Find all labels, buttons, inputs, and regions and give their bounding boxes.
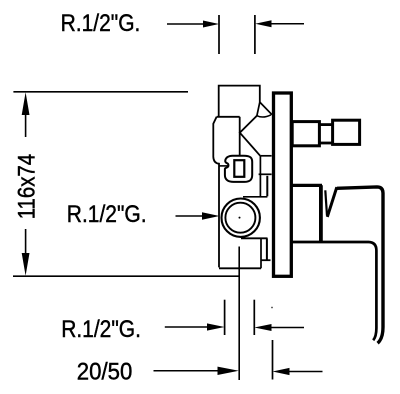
svg-text:R.1/2"G.: R.1/2"G.	[61, 10, 141, 37]
handle hub right bar	[319, 185, 323, 242]
middle leader arrow to inlet circle	[176, 215, 204, 217]
circle bottom tangent line	[241, 237, 268, 239]
bottom dim1 extension line right	[253, 300, 255, 335]
lever inner edge bottom and right with tip curl	[291, 242, 377, 340]
outlet nipple neck bottom	[319, 142, 332, 145]
body bottom edge	[219, 267, 261, 269]
left dimension top reference line	[13, 91, 188, 93]
top dimension arrow right	[271, 23, 305, 25]
bottom dim1 arrow right	[271, 327, 305, 329]
svg-text:20/50: 20/50	[77, 358, 133, 385]
body upper-left horizontal edge	[217, 116, 240, 118]
outlet nipple block 2	[333, 120, 360, 144]
left dimension vertical line upper with up arrow	[25, 105, 27, 137]
cartridge cone diagonals	[240, 116, 260, 156]
inlet circle center dot	[239, 217, 241, 219]
body inner vertical edge	[239, 117, 241, 156]
handle neck inner diagonal	[325, 190, 327, 215]
top dimension extension line left	[218, 15, 220, 54]
bottom dim2 arrow left	[154, 370, 222, 372]
top dimension extension line right	[254, 15, 256, 54]
handle hub top edge	[291, 184, 322, 187]
cartridge step rect top edge	[260, 155, 271, 157]
svg-text:R.1/2"G.: R.1/2"G.	[67, 201, 147, 228]
cartridge step right vertical	[266, 176, 268, 197]
top dimension arrow left	[167, 23, 204, 25]
bottom dim2 extension line right	[272, 340, 274, 380]
handle neck outer diagonal	[327, 187, 337, 217]
wall plate	[274, 93, 292, 276]
bottom pipe centerline	[238, 247, 240, 381]
bottom dim1 extension line left	[224, 300, 226, 335]
cartridge step mid horizontal	[259, 173, 272, 175]
bottom dim2 arrow right	[289, 371, 323, 373]
body chamfer triangle to plate	[257, 102, 272, 116]
outlet nipple neck top	[319, 123, 332, 126]
diverter knob inner rect	[234, 160, 244, 177]
inlet circle outer	[222, 199, 260, 237]
lower step block bottom	[261, 259, 271, 261]
left dimension bottom reference line	[13, 275, 239, 277]
circle top tangent line	[243, 196, 267, 198]
svg-text:116x74: 116x74	[13, 154, 40, 219]
body right lower edge	[260, 238, 262, 268]
inlet circle inner	[225, 203, 255, 233]
outlet nipple block 1	[292, 122, 319, 146]
valve body top rectangle	[219, 86, 260, 117]
cartridge step rect left edge	[259, 156, 261, 196]
small speck	[271, 307, 273, 309]
svg-text:R.1/2"G.: R.1/2"G.	[61, 316, 141, 343]
lever outer edge top and right with tip curl	[337, 187, 383, 343]
left dimension vertical line lower with down arrow	[25, 229, 27, 262]
body internal horizontal line left of knob	[219, 165, 228, 167]
bottom dim1 arrow left	[165, 326, 208, 328]
diverter knob outer shape	[225, 156, 252, 182]
lower step block right vertical	[266, 238, 268, 260]
body left profile with chamfer and step	[213, 117, 219, 268]
